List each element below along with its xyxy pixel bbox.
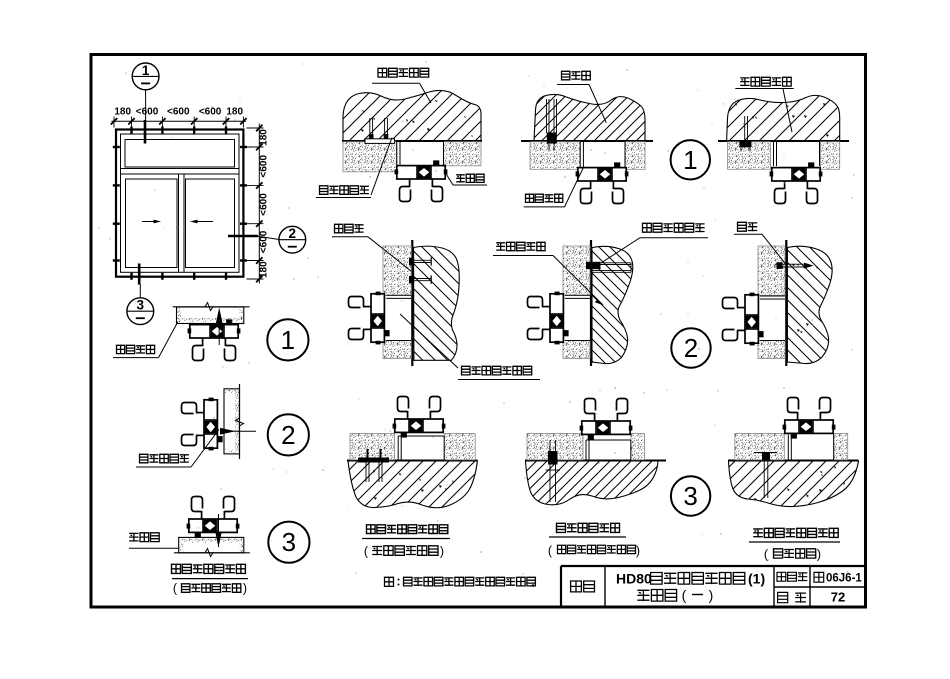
svg-text:1: 1	[142, 63, 150, 78]
svg-text:<600: <600	[259, 230, 270, 253]
window frame section sill col B	[393, 397, 446, 438]
scan speckle noise	[405, 167, 408, 170]
galvanized fixing plate anchors col B	[369, 118, 371, 139]
expansion bolt anchor sill col C	[548, 451, 558, 465]
sash slide arrow right	[196, 221, 213, 223]
sub-frame det2 channel	[224, 389, 240, 454]
sill datum line col B	[347, 460, 478, 462]
svg-text:180: 180	[114, 107, 131, 118]
svg-text:1: 1	[281, 325, 295, 355]
svg-text:<600: <600	[136, 107, 159, 118]
mortar stipple jamb col B	[383, 246, 411, 295]
embedded-plate welded studs col B	[413, 259, 431, 261]
sill datum line col D	[728, 460, 859, 462]
title block 页次	[778, 592, 788, 602]
sub-frame box sill col C	[585, 440, 587, 460]
title block 图集号	[777, 572, 807, 581]
svg-text:HD80: HD80	[616, 571, 652, 587]
label 砖洞口	[562, 71, 591, 80]
self-tapping screw det2 (arrow right)	[220, 430, 256, 432]
window frame section sill col D	[783, 398, 836, 439]
mortar stipple sill col C	[527, 434, 583, 460]
window frame section jamb col B	[349, 292, 390, 345]
steel sub-frame angle head col D	[773, 142, 775, 167]
note 注：钢附框与墙体连接按工程设计	[385, 577, 394, 586]
window frame section jamb col C	[528, 292, 569, 345]
sub-frame det1 channel	[177, 307, 244, 324]
label 镀锌固定板	[320, 186, 369, 195]
sill datum line col C	[525, 460, 666, 462]
label 密封胶	[456, 174, 484, 182]
mortar stipple sill col D	[735, 434, 785, 460]
detail number circle 1	[671, 140, 710, 179]
sub-frame box sill col B	[397, 436, 399, 460]
svg-text:): )	[817, 548, 821, 562]
window frame section sill col C	[580, 399, 633, 440]
elevation sliding sash left	[126, 179, 178, 268]
elevation transom	[121, 168, 240, 170]
caption 混凝土洞口连接图 (col D)	[753, 528, 838, 537]
section mark 1 (top)	[132, 63, 159, 90]
circle 3 (left column)	[268, 522, 309, 563]
label 燕尾铁脚螺钉	[643, 223, 705, 232]
title block 图名	[571, 581, 595, 592]
svg-text:<600: <600	[259, 155, 270, 178]
welded embedded plate anchor sill col B	[358, 458, 389, 463]
detail number circle 2	[671, 328, 710, 367]
mortar stipple head col C	[530, 142, 580, 170]
steel angle jamb col B	[386, 294, 411, 296]
elevation sliding sash right	[186, 179, 235, 268]
window frame section jamb col D	[723, 293, 764, 346]
label 盘头自攻钉	[140, 454, 189, 463]
svg-text:): )	[440, 545, 444, 559]
window frame section det2	[182, 398, 223, 451]
section mark 3 (bottom)	[127, 298, 154, 325]
title block frame	[561, 565, 866, 567]
window frame section head col B	[395, 160, 448, 201]
window frame section head col C	[576, 162, 629, 203]
svg-text:3: 3	[282, 527, 296, 557]
label 聚氨脂填充材料	[462, 366, 532, 375]
label 预埋件	[335, 224, 364, 233]
sub-frame det1 panel line	[173, 306, 250, 308]
window elevation outer frame	[116, 130, 243, 277]
svg-text:2: 2	[289, 226, 297, 241]
sash slide arrow left	[142, 221, 158, 223]
svg-text:3: 3	[137, 298, 145, 313]
caption 混凝土洞口连接图 (col B)	[367, 525, 448, 534]
mortar stipple jamb col C	[563, 246, 590, 295]
blind rivet anchor col C	[546, 99, 548, 133]
svg-text:2: 2	[281, 420, 295, 450]
drawing sheet border	[91, 55, 866, 608]
elevation fixed top light	[125, 140, 235, 168]
shot nail col D	[775, 263, 806, 265]
sub-frame det3 base line	[174, 552, 250, 554]
caption 砖洞口连接图 (col C)	[557, 523, 620, 532]
self-tapping screw det1 (arrow up)	[218, 312, 220, 345]
window frame section det3	[187, 497, 240, 538]
svg-text:): )	[243, 582, 247, 596]
sub-frame box sill col D	[787, 434, 789, 460]
window frame section head col D	[770, 162, 823, 203]
svg-text:180: 180	[226, 107, 243, 118]
top dimension line	[112, 120, 247, 122]
sub-frame det3 channel	[179, 537, 244, 552]
svg-text:<600: <600	[259, 193, 270, 216]
steel sub-frame angle head col C	[579, 142, 581, 168]
svg-text:(: (	[682, 587, 687, 603]
jamb datum line col C	[590, 240, 592, 366]
label 混凝土洞口 (col D)	[740, 77, 791, 86]
elevation mullion	[178, 174, 180, 272]
detail number circle 3	[671, 476, 710, 515]
steel sub-frame angle head col B	[396, 142, 398, 166]
title text 安装图（一）	[637, 590, 676, 602]
circle 1 (left column)	[267, 319, 308, 360]
jamb datum line col D	[785, 240, 787, 366]
svg-text:180: 180	[259, 129, 270, 146]
sub-frame det2 panel line	[239, 384, 241, 459]
svg-text:72: 72	[831, 590, 845, 605]
label 混凝土洞口 (col B)	[378, 68, 429, 77]
label 抽芯铆钉	[526, 194, 563, 202]
right dimension line	[258, 124, 260, 284]
mortar stipple jamb col D	[758, 246, 785, 295]
svg-text:): )	[636, 544, 640, 558]
atlas number 甘06J6-1	[814, 572, 824, 582]
svg-text:3: 3	[683, 481, 697, 511]
label 窗口面板	[117, 345, 155, 353]
caption 附框安装连接图	[172, 564, 246, 573]
self-tapping screw det3 (arrow down)	[218, 514, 220, 547]
svg-text:2: 2	[684, 333, 698, 363]
elevation anchor ticks	[130, 127, 132, 134]
head detail wall line (concrete, col B)	[342, 140, 482, 142]
svg-text:06J6-1: 06J6-1	[826, 573, 862, 585]
mortar stipple head col D	[728, 142, 771, 170]
dovetail iron anchor col C	[592, 262, 632, 264]
head detail wall line (concrete, col D)	[718, 140, 849, 142]
anchor bolt col D	[744, 116, 746, 141]
svg-text:(1): (1)	[748, 571, 765, 587]
svg-text:1: 1	[683, 145, 697, 175]
steel angle jamb col C	[565, 294, 590, 296]
svg-text:180: 180	[259, 261, 270, 278]
mortar stipple sill col B	[350, 434, 395, 460]
svg-text:<600: <600	[167, 107, 190, 118]
steel angle jamb col D	[760, 295, 785, 297]
shot nail anchor sill col D	[754, 452, 777, 454]
jamb datum line col B	[411, 240, 413, 366]
label 钢付框	[129, 533, 159, 542]
label 多孔承重砖	[496, 242, 545, 250]
head detail wall line (brick, col C)	[521, 140, 653, 142]
circle 2 (left column)	[268, 414, 309, 455]
window frame section det1	[188, 319, 241, 360]
label 射钉 (jamb)	[738, 222, 758, 231]
section mark 2 (right)	[279, 226, 306, 253]
svg-text:): )	[709, 587, 714, 603]
svg-text:<600: <600	[199, 107, 222, 118]
mortar stipple head col B	[343, 142, 397, 172]
